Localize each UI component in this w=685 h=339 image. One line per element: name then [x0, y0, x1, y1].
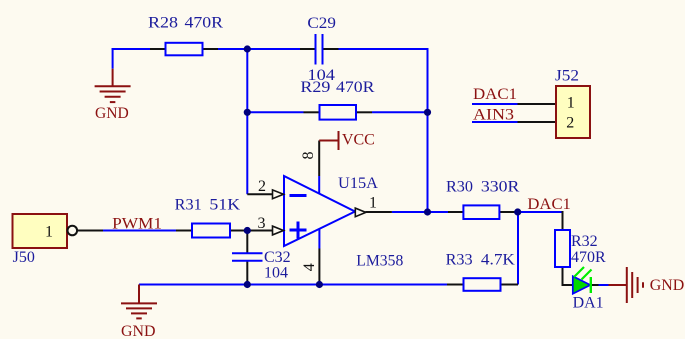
svg-text:LM358: LM358 [356, 252, 403, 269]
svg-text:8: 8 [300, 152, 317, 160]
svg-text:51K: 51K [209, 197, 240, 214]
svg-text:330R: 330R [481, 178, 520, 195]
svg-text:R30: R30 [446, 178, 473, 195]
svg-text:R31: R31 [175, 197, 202, 214]
svg-text:U15A: U15A [338, 175, 378, 192]
svg-text:2: 2 [258, 178, 266, 195]
svg-text:104: 104 [264, 265, 288, 282]
svg-text:1: 1 [567, 94, 575, 111]
svg-text:DA1: DA1 [573, 294, 604, 311]
svg-text:R28: R28 [148, 15, 178, 32]
svg-text:3: 3 [258, 215, 266, 232]
svg-text:DAC1: DAC1 [473, 86, 517, 103]
svg-text:470R: 470R [336, 79, 375, 96]
svg-text:R32: R32 [571, 233, 598, 250]
svg-text:GND: GND [650, 277, 685, 294]
svg-text:4: 4 [301, 263, 318, 271]
svg-text:1: 1 [45, 224, 53, 241]
svg-text:VCC: VCC [342, 131, 375, 148]
svg-text:AIN3: AIN3 [473, 106, 514, 123]
svg-text:R33: R33 [446, 251, 473, 268]
svg-text:PWM1: PWM1 [112, 215, 162, 232]
svg-text:2: 2 [566, 114, 574, 131]
svg-text:C32: C32 [264, 249, 291, 266]
svg-text:GND: GND [121, 323, 156, 339]
svg-text:J50: J50 [13, 249, 35, 266]
svg-text:470R: 470R [185, 15, 224, 32]
svg-text:J52: J52 [555, 68, 579, 85]
svg-text:470R: 470R [571, 249, 606, 266]
svg-text:C29: C29 [307, 15, 336, 32]
svg-text:1: 1 [369, 194, 377, 211]
svg-text:DAC1: DAC1 [527, 196, 571, 213]
svg-text:R29: R29 [300, 79, 330, 96]
svg-text:4.7K: 4.7K [481, 251, 515, 268]
svg-text:GND: GND [95, 105, 129, 122]
